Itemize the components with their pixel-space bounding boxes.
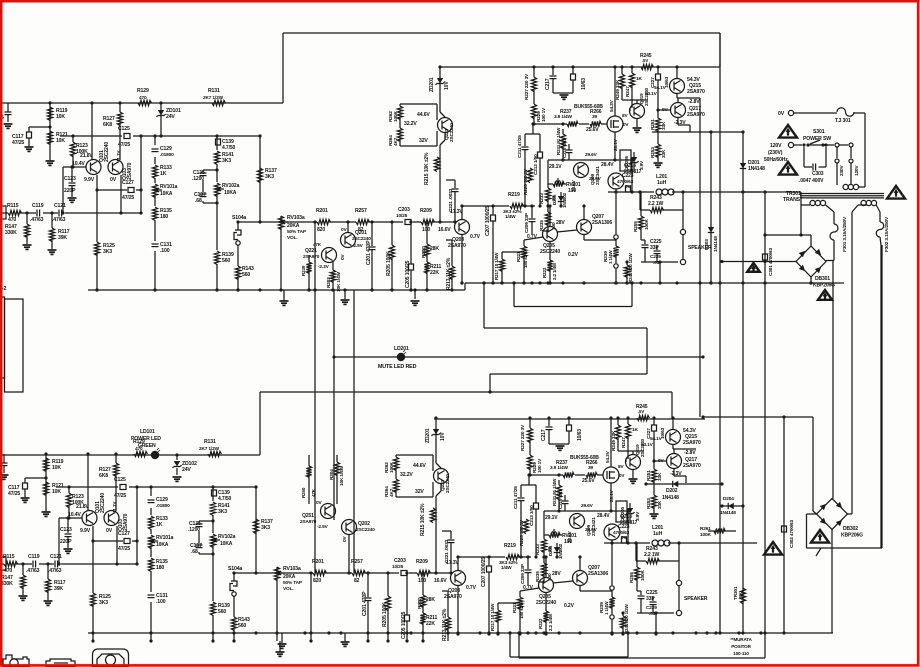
resistor R135 180 [151,206,159,220]
wire [154,136,156,290]
resistor R205 100K [391,222,393,245]
svg-text:C209 33P: C209 33P [524,213,530,233]
svg-text:0.7V: 0.7V [470,234,481,240]
transistor Q209 2SC3421 [574,163,589,178]
svg-text:47/25: 47/25 [118,142,130,148]
zener ZD101 24V [160,103,162,136]
svg-text:10.4V: 10.4V [72,161,85,167]
wire [549,206,551,227]
capacitor C211 47/25 [524,134,526,146]
ground [344,290,346,299]
ground [4,123,13,125]
wire main bus [719,33,721,633]
svg-text:47K: 47K [311,488,316,497]
svg-text:C201 470P: C201 470P [366,240,372,265]
resistor R251 33K [657,110,659,118]
svg-text:C121: C121 [54,203,66,209]
ground [25,146,34,148]
svg-text:POSITOR: POSITOR [731,644,751,649]
svg-text:RV101a: RV101a [160,184,178,190]
svg-text:24V: 24V [166,114,175,120]
svg-text:F301 3.15A/250V: F301 3.15A/250V [842,216,848,252]
wire [722,261,796,263]
mosfet Q211 BUK555-60B [607,116,623,132]
svg-text:5K: 5K [738,592,744,598]
capacitor C301 4700/63 [763,254,768,260]
svg-text:R225 100 1V: R225 100 1V [523,168,529,195]
wire [676,94,678,98]
svg-text:R227 220 3V: R227 220 3V [524,73,530,100]
wire [831,530,833,634]
transistor Q213 2SB817 [608,173,624,189]
resistor R213 11K [451,240,453,266]
resistor R137 3K3 [259,136,261,222]
svg-text:ZD201: ZD201 [429,77,435,92]
svg-text:.01: .01 [653,260,660,266]
switch S301 POWER SW [794,144,802,146]
svg-text:32.2V: 32.2V [404,121,417,127]
transistor Q201 2SC2240 [341,233,356,248]
svg-text:3.9 1/4W: 3.9 1/4W [554,114,572,120]
wire protection loop ch1 [483,283,485,328]
svg-text:2SB817: 2SB817 [624,169,642,175]
svg-text:10K: 10K [56,138,65,144]
svg-text:R255: R255 [633,221,639,232]
svg-text:Q251: Q251 [302,513,314,519]
svg-text:R233: R233 [539,193,545,204]
svg-text:.47/63: .47/63 [30,217,44,223]
wire feedback box ch2 [509,633,511,657]
resistor R266 39 [589,119,601,129]
capacitor C219 .001 [566,149,573,151]
svg-text:R223: R223 [542,267,547,278]
transformer primary taps [835,143,839,147]
svg-text:D204: D204 [723,496,734,502]
svg-text:C207 1000/25: C207 1000/25 [485,206,491,236]
svg-text:C203: C203 [398,207,410,213]
svg-text:1K: 1K [636,76,642,82]
capacitor C135 .1200 [196,172,210,180]
transistor Q221 2SA970 [322,248,337,263]
transformer secondary windings [810,200,815,205]
svg-text:-2.5V: -2.5V [352,243,364,249]
capacitor C131 .100 [149,241,159,251]
svg-text:R217 10 1/4W: R217 10 1/4W [494,252,499,280]
svg-text:28.4V: 28.4V [601,162,614,168]
transformer core [800,193,884,195]
svg-text:R261: R261 [700,526,711,532]
wire base line [63,166,86,168]
wire [439,92,441,112]
svg-text:.1200: .1200 [192,176,204,182]
svg-text:1K: 1K [160,171,167,177]
svg-text:1N4002: 1N4002 [562,192,567,208]
svg-text:50Hz/60Hz: 50Hz/60Hz [764,157,788,163]
svg-text:33: 33 [551,196,557,201]
transistor Q205 2SC2240 [543,227,558,242]
resistor R143 560 [235,266,240,280]
wire ch1 rail step [282,33,284,103]
warning triangle [779,162,797,175]
resistor R141 3K3 [213,150,221,164]
ground [414,290,416,299]
resistor R217 10 1/4W [501,252,503,259]
resistor R209 100 [421,217,433,227]
resistor R264 4K7 [399,118,401,128]
wire junction dots ch1 rail [95,288,98,291]
wire ch1 top rail [283,32,720,34]
resistor R231 91 1/4W [562,129,564,134]
svg-text:2SA970: 2SA970 [687,112,705,118]
wire output line [608,191,761,193]
resistor R215 10K [434,157,439,172]
transistor Q202 2SC2240 ch2 [342,520,357,535]
resistor R207 28K [426,222,428,244]
svg-text:C125: C125 [118,126,130,132]
svg-text:Q201: Q201 [355,230,367,236]
wire [765,234,811,236]
connector input jack ch1 [0,206,6,219]
capacitor C137 .68 [196,192,210,201]
svg-text:2SC2240: 2SC2240 [356,527,375,533]
wire [783,417,785,633]
svg-text:1N4148: 1N4148 [662,495,679,501]
resistor R131 2K7 1/2W [212,98,224,107]
wire mosfet source [614,132,616,160]
svg-text:R213 11K ±2%: R213 11K ±2% [446,257,452,290]
svg-text:LD201: LD201 [394,346,409,352]
svg-text:47/25: 47/25 [12,140,24,146]
svg-text:R231 91 1/4W: R231 91 1/4W [556,127,561,155]
svg-text:25.6V: 25.6V [586,127,599,133]
capacitor C213 1/50 [539,134,541,152]
svg-text:1N4148: 1N4148 [748,166,765,172]
potentiometer RV201 100 [553,181,564,186]
svg-text:C127: C127 [122,180,134,186]
channel 1 circuitry (top) [1,53,761,305]
svg-text:R219: R219 [508,192,520,198]
capacitor C303 .0047 400V [803,147,805,167]
resistor R225 100 1V [527,168,532,183]
zener ZD201 10V [439,67,441,92]
jack [3,655,29,667]
svg-text:10K 1/4W: 10K 1/4W [339,465,345,486]
svg-text:R205 100K: R205 100K [386,251,392,276]
zener ZD102 24V [176,455,178,460]
capacitor C201 473P [371,222,373,246]
ground [46,160,55,162]
resistor R239b 47K [308,255,310,262]
wire [764,192,766,658]
svg-text:R209: R209 [420,208,432,214]
wire Q101 collector [91,103,93,160]
svg-text:16.6V: 16.6V [438,227,451,233]
terminal 120V [788,142,793,147]
ground [23,244,32,246]
svg-text:29.6V: 29.6V [585,152,598,158]
svg-text:1 1/4W: 1 1/4W [608,250,613,264]
svg-text:6K8: 6K8 [103,122,112,128]
ground [344,633,346,641]
svg-text:10/25: 10/25 [396,213,408,219]
svg-text:470: 470 [8,217,16,223]
resistor R121 10K [47,131,52,145]
resistor R204 10K 1/4W [336,455,338,462]
capacitor C215 10/63 [572,67,574,74]
svg-text:0V: 0V [623,122,628,127]
wire C125 line [60,135,260,137]
svg-text:4.7/50: 4.7/50 [222,145,235,151]
svg-text:POWER LED: POWER LED [131,436,161,442]
wire bus [314,290,316,573]
wire [518,633,520,658]
svg-text:RV103a: RV103a [287,215,305,221]
wire junction dots ch2 rail [91,631,94,634]
svg-text:C217: C217 [545,78,551,90]
fuse T.3 301 [794,112,837,114]
resistor R241 820 1/2W [626,262,628,265]
fuse F302 3.15A/250V [876,222,884,237]
wire [622,99,648,101]
svg-text:C119: C119 [32,203,44,209]
fuse F301 3.15A/250V [830,224,838,240]
transistor Q103 2SA970 [108,160,123,175]
svg-text:9.9V: 9.9V [84,177,95,183]
svg-text:TRANS': TRANS' [783,197,801,203]
ground [48,249,57,251]
capacitor C119 .47/63 [36,209,43,218]
svg-text:0.2V: 0.2V [568,252,579,258]
resistor R133 1K [151,164,159,178]
wire emitter line [96,175,98,190]
resistor R233 33 [545,188,550,202]
svg-text:R129: R129 [137,88,149,94]
capacitor C209 33P [531,206,533,218]
transistor Q2xx 2SA970 ch2 [321,504,336,519]
wire [216,136,218,290]
svg-text:KBP206G: KBP206G [813,283,835,289]
resistor R247 1K [631,67,633,73]
svg-text:100: 100 [568,188,576,194]
svg-text:28.1V: 28.1V [613,138,619,151]
wire ch1 upper rail [440,66,720,68]
speaker terminal [680,259,685,264]
svg-text:120V: 120V [854,165,860,176]
wire [826,260,834,262]
transistor Q219 2SC2240 [630,104,645,119]
svg-text:100K: 100K [393,111,399,122]
svg-text:D202: D202 [666,488,678,494]
svg-text:C302 4700/63: C302 4700/63 [789,519,795,548]
svg-text:MUTE LED RED: MUTE LED RED [378,364,417,370]
capacitor C139 4.7/50 [216,139,221,145]
svg-text:180 ±2%: 180 ±2% [523,251,528,268]
wire [615,192,617,234]
diode D203 1N4148 [710,132,712,283]
wire [810,277,812,283]
jack [46,659,75,667]
capacitor C117 47/25 [28,127,30,132]
svg-text:3K3: 3K3 [222,158,231,164]
svg-text:28K: 28K [430,246,439,252]
transistor Q223 2SC2240 [438,118,453,133]
svg-text:-2: -2 [2,286,7,292]
svg-text:BUK555-60B: BUK555-60B [574,104,603,110]
wire driver line [548,159,632,161]
svg-text:470: 470 [139,95,147,101]
svg-text:28V: 28V [556,220,565,226]
capacitor C123 220P [71,167,73,182]
connector input jack ch2 [0,557,6,570]
svg-text:.0047 400V: .0047 400V [799,178,824,184]
wire bus [333,290,335,520]
svg-text:C303: C303 [812,171,824,177]
resistor R229 100 1V [531,104,536,119]
svg-text:.68: .68 [195,198,202,204]
resistor R243 2.2 1W [639,192,641,210]
wire [652,131,743,133]
svg-text:39: 39 [592,114,597,120]
svg-text:11.1V: 11.1V [116,150,122,162]
capacitor C225 33P [641,239,645,241]
svg-text:22K: 22K [430,270,439,276]
capacitor C129 .01800 [150,145,159,157]
ground [654,162,663,164]
capacitor C203 10/25 [403,217,413,227]
speaker terminal [680,229,685,234]
svg-text:24V: 24V [182,467,191,473]
svg-text:-2.3V: -2.3V [318,264,330,270]
svg-text:560: 560 [222,258,230,264]
svg-text:F302 3.15A/250V: F302 3.15A/250V [884,216,890,252]
wire [444,133,446,140]
warning triangle [887,186,905,199]
svg-text:2SC2240: 2SC2240 [104,142,110,162]
svg-text:KBP206G: KBP206G [841,533,863,539]
wire [864,113,866,187]
capacitor C115 input coupling [5,111,12,113]
capacitor C217 [552,67,554,75]
svg-text:2K7 1/2W: 2K7 1/2W [203,95,224,101]
svg-text:S301: S301 [813,129,825,135]
wire [549,241,551,260]
resistor R115 470 [8,208,20,218]
wire [525,133,540,135]
wire [858,204,867,206]
svg-text:1N4148: 1N4148 [720,510,736,516]
resistor R249 33K [621,67,623,74]
svg-text:T.3 301: T.3 301 [835,118,851,124]
svg-text:-2.8V: -2.8V [688,99,700,105]
resistor R203 10K 1/4W [332,262,334,270]
resistor R245 .5W [641,62,653,72]
capacitor C223 4700/63 [626,186,631,192]
transistor Q203 2SA970 [455,220,470,235]
wire input line [2,212,141,214]
svg-text:0V: 0V [778,111,785,117]
wire ch2 positive rail [2,454,260,456]
svg-text:29.1V: 29.1V [549,164,562,170]
capacitor C302 4700/63 [782,526,787,532]
wire ch1 positive rail [2,102,283,104]
svg-text:10K: 10K [56,114,65,120]
svg-text:1/4W: 1/4W [505,214,516,220]
resistor R119 10K [47,107,52,121]
inductor L201 1uH [654,186,672,193]
wire bus [353,290,355,573]
resistor TR301 5K posistor [740,588,745,604]
svg-text:100K: 100K [700,532,711,538]
svg-text:R131: R131 [208,88,220,94]
resistor R255 100K [640,192,642,216]
wire [203,169,217,171]
svg-text:28.6V: 28.6V [589,176,602,182]
svg-text:S104a: S104a [232,215,246,221]
wire [140,136,142,213]
zener ZD205 3.9V [620,150,631,171]
transistor Q215 2SA970 [670,79,685,94]
resistor R123 100K [72,136,74,142]
wire [314,222,316,290]
test point [614,235,618,239]
svg-text:R253: R253 [650,147,656,158]
svg-text:C205 100/25: C205 100/25 [405,260,411,288]
capacitor C125 47/25 [122,131,133,141]
diode D204 1N4148 [722,505,743,507]
svg-text:20KA: 20KA [287,223,300,229]
ground [553,92,573,94]
transformer TR301 primary winding [843,184,848,189]
resistor R147 330K [26,213,28,224]
svg-text:1N4148: 1N4148 [713,236,719,252]
ground [281,633,283,643]
wire gate line [534,123,607,125]
wire [801,204,810,206]
svg-text:10/63: 10/63 [581,78,587,90]
wire mosfet drain [614,67,616,116]
wire Q203 collector line [461,206,463,219]
svg-text:R250: R250 [301,487,306,498]
resistor R227 220 [533,67,535,77]
resistor R127 6K8 [119,103,121,112]
svg-text:(230V): (230V) [768,150,783,156]
resistor R237 3.9 1/4W [567,119,579,129]
svg-text:3K3: 3K3 [103,249,112,255]
svg-text:R204: R204 [329,469,335,480]
svg-text:-2.5V: -2.5V [317,524,329,530]
svg-text:2SC3421: 2SC3421 [595,166,601,185]
svg-text:2SC2240: 2SC2240 [449,123,455,142]
transistor Q217 2SA970 [671,103,686,118]
wire mute line [334,356,703,358]
svg-text:820: 820 [317,227,325,233]
resistor R221 180 [523,240,525,246]
wire [742,192,744,633]
wire [703,416,813,418]
svg-text:C213 1/50: C213 1/50 [533,154,539,175]
svg-text:330K: 330K [5,230,17,236]
svg-text:2SA970: 2SA970 [127,162,133,180]
resistor R219 3K3 [509,201,522,211]
svg-text:10KA: 10KA [224,190,237,196]
warning triangle [747,263,760,272]
svg-text:100 1V: 100 1V [541,107,547,122]
svg-text:39K: 39K [58,235,67,241]
svg-text:D203: D203 [704,239,710,250]
wire [49,103,51,161]
svg-text:3K3: 3K3 [265,174,274,180]
bridge rectifier DB301 KBP206G [796,246,826,277]
